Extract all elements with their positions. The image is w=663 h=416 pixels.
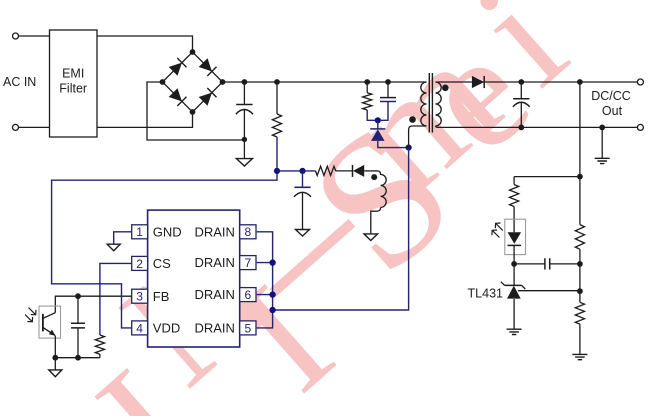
wire AC top to EMI [19,35,50,37]
node divider top [577,174,583,180]
wire pin2 CS [100,263,132,335]
transformer primary winding [421,82,427,126]
node emitter [52,355,58,361]
diode D7 VDD [336,170,353,172]
diode D1 (bridge) [169,63,182,76]
wire pin6 [257,294,273,296]
pin 8 box [240,225,256,239]
svg-text:FB: FB [153,289,170,304]
svg-text:DC/CC: DC/CC [591,89,631,103]
node C3 bottom [518,125,524,131]
node VDD cap junction [299,168,305,174]
wire pin7 [257,262,273,264]
wire drain bus vertical [273,148,409,310]
node FB cap [75,293,81,299]
svg-text:DRAIN: DRAIN [194,321,234,336]
optocoupler LED box [505,219,526,254]
wire secondary bottom rail [436,126,638,127]
node bridge right [220,79,226,85]
svg-text:3: 3 [136,290,143,304]
resistor R5 divider upper [579,177,581,225]
svg-text:4: 4 [136,321,143,335]
capacitor C5 FB [77,296,79,323]
ground divider [572,354,587,359]
node C5 bottom [75,355,81,361]
svg-text:Filter: Filter [59,82,87,96]
node divider takeoff [577,79,583,85]
svg-text:8: 8 [245,225,252,239]
wire VDD node to cap [277,170,316,172]
ground primary bulk [243,139,245,158]
wire bridge negative return [147,82,244,140]
pin 1 box [132,225,148,239]
pin 5 box [240,321,256,335]
ground secondary output [601,127,603,158]
optocoupler phototransistor box [39,306,61,338]
resistor R7 VDD series [316,166,336,175]
wire drain pin bus [257,232,273,328]
wire pin1 GND [114,232,132,244]
svg-text:DRAIN: DRAIN [194,224,234,239]
resistor R1 startup [276,82,278,114]
svg-text:5: 5 [245,321,252,335]
svg-text:AC IN: AC IN [3,75,36,89]
diode D4 (bridge) [199,93,212,106]
diode D5 clamp [377,120,379,128]
node bridge bottom [190,109,196,115]
bridge rectifier edges [163,52,223,112]
svg-text:Out: Out [602,104,623,118]
pin 2 box [132,256,148,270]
svg-text:GND: GND [153,224,182,239]
node C2 top [385,79,391,85]
wire emitter to resistor [55,357,100,359]
terminal DC out minus [637,124,643,130]
capacitor C6 VDD [302,171,304,187]
wire to LED branch [514,176,580,178]
pin 3 box [132,289,148,303]
transformer secondary winding [436,82,442,126]
diode D2 (bridge) [199,58,212,71]
node R2 top [364,79,370,85]
wire secondary top [436,81,472,83]
node output minus gnd [599,125,605,131]
wire pin3 FB [55,296,131,313]
pin 6 box [240,288,256,302]
ground opto emitter [54,358,56,370]
terminal AC top [13,33,19,39]
svg-text:CS: CS [153,256,171,271]
svg-text:6: 6 [245,288,252,302]
node R1 top [274,79,280,85]
node pin6 bus [269,291,275,297]
LED optocoupler diode [508,232,522,244]
aux winding phasing dot [371,174,377,180]
node VDD R1 junction [274,168,280,174]
ground VDD cap [296,230,310,237]
capacitor C3 output [520,82,522,99]
node C1 top [242,79,248,85]
diode D3 (bridge) [169,88,182,101]
node drain clamp [406,145,412,151]
svg-text:DRAIN: DRAIN [194,287,234,302]
transformer phasing dot primary [409,116,416,123]
capacitor C4 compensation [514,263,545,265]
node bridge left [160,79,166,85]
node drain out [269,307,275,313]
wire EMI top out to bridge top [97,36,193,52]
node bridge top [190,49,196,55]
node pin7 bus [269,259,275,265]
LED emission arrows [492,223,503,237]
wire divider drop [579,82,581,177]
ground IC [107,244,120,251]
wire pin4 VDD [52,171,277,328]
transistor Q1 phototransistor [42,314,44,332]
op-amp U1 controller body [148,210,240,347]
node divider mid cap [577,261,583,267]
wire EMI bottom out to bridge bottom [97,112,193,127]
diode D6 output rectifier [472,76,484,88]
pin 4 box [132,321,148,335]
svg-text:2: 2 [136,257,143,271]
svg-text:EMI: EMI [62,67,84,81]
svg-text:DRAIN: DRAIN [194,255,234,270]
node LED cathode [511,261,517,267]
wire LED cathode to TL431 [513,264,515,286]
capacitor C1 bulk [243,82,245,104]
phototransistor light arrows [25,308,36,322]
node divider ref [577,288,583,294]
node C1 bottom [242,137,247,142]
wire DC bus top rail [223,81,427,83]
ground aux winding [364,234,378,241]
EMI filter box [50,30,98,137]
wire AC bottom to EMI [19,126,50,128]
svg-text:1: 1 [136,225,143,239]
resistor R3 CS sense [95,335,104,354]
pin 7 box [240,256,256,270]
transformer core [429,73,432,133]
TL431 U2 [505,284,522,286]
resistor R6 divider lower [575,302,584,324]
svg-text:7: 7 [245,256,252,270]
terminal AC bottom [13,124,19,130]
svg-text:VDD: VDD [153,321,180,336]
transformer phasing dot secondary [442,85,449,92]
terminal DC out plus [637,79,643,85]
resistor R2 clamp [366,82,368,93]
svg-text:TL431: TL431 [468,287,503,301]
node clamp junction [375,117,381,123]
ground TL431 [507,329,522,334]
inductor aux winding [377,171,386,208]
wire output top rail [484,81,637,83]
node C3 top [518,79,524,85]
capacitor C2 clamp [387,82,389,97]
resistor R4 LED series [513,177,515,185]
